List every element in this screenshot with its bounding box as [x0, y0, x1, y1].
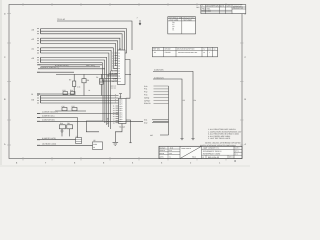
resistor R8	[82, 74, 89, 95]
svg-text:NOTES: UNLESS OTHERWISE SPECIF: NOTES: UNLESS OTHERWISE SPECIFIED	[205, 142, 241, 145]
reference designator table	[168, 16, 196, 34]
wire data line D0	[37, 95, 118, 97]
svg-text:PH2: PH2	[144, 91, 147, 94]
wire SELECT net	[153, 76, 185, 140]
wire Q1 base	[32, 93, 75, 96]
wire +5V rail	[56, 73, 131, 75]
svg-text:3 (WRITE SEL): 3 (WRITE SEL)	[42, 115, 55, 118]
wire MOTOR ON	[37, 119, 169, 122]
connector bracket data group	[32, 96, 41, 104]
svg-text:10 (HEAD LOAD): 10 (HEAD LOAD)	[42, 143, 56, 146]
svg-text:WRT REQ: WRT REQ	[86, 64, 95, 67]
wire address bus line 6	[41, 43, 118, 65]
resistor network K1	[59, 122, 72, 136]
wire WRITE PROTECT net	[38, 66, 105, 69]
svg-text:R11: R11	[67, 122, 70, 125]
op-amp U1 ROM	[111, 47, 126, 89]
device power table	[152, 47, 217, 56]
svg-text:PROD REL: PROD REL	[202, 8, 211, 11]
wire address bus line 8	[41, 50, 118, 70]
ground	[113, 142, 119, 145]
svg-text:Y1: Y1	[76, 135, 78, 138]
capacitor C4	[96, 74, 104, 95]
svg-text:APPROVED: APPROVED	[233, 5, 243, 8]
capacitor C2 value label	[77, 86, 90, 92]
svg-text:650-X104-00: 650-X104-00	[208, 156, 219, 159]
svg-text:9 (WRITE GATE): 9 (WRITE GATE)	[42, 137, 56, 140]
shift register U2	[107, 77, 127, 128]
svg-text:SCHEMATIC DISK II: SCHEMATIC DISK II	[203, 150, 222, 153]
crystal Y1	[76, 135, 82, 144]
wire DRIVE SELECT 1	[37, 111, 119, 114]
resistor R7	[69, 74, 76, 94]
wire return loop	[86, 121, 103, 132]
connector bracket group 2	[37, 38, 40, 43]
resistor R14	[70, 89, 75, 95]
capacitor C10	[62, 105, 68, 111]
wire bus drop 3	[106, 76, 108, 125]
relay G1	[93, 139, 103, 149]
svg-text:R10: R10	[60, 122, 63, 125]
wire address bus line 1	[32, 28, 127, 53]
svg-text:4 (MOTOR ON): 4 (MOTOR ON)	[42, 119, 55, 122]
wire MOTOR net	[153, 69, 196, 140]
revision table	[196, 5, 246, 14]
svg-text:U2: U2	[119, 96, 121, 99]
svg-text:A (WRITE PROTECT): A (WRITE PROTECT)	[40, 66, 59, 69]
svg-text:INTERFACE CARD: INTERFACE CARD	[203, 153, 221, 156]
svg-text:R8: R8	[87, 79, 89, 82]
svg-text:R13: R13	[63, 89, 66, 92]
svg-text:PH0: PH0	[144, 85, 147, 88]
svg-text:U1: U1	[119, 47, 121, 50]
wire address bus line 7	[32, 48, 118, 69]
title block	[159, 146, 242, 159]
connector bracket group 3	[37, 48, 40, 53]
wire address bus line 10	[32, 57, 118, 76]
wire U2 to ground	[115, 124, 122, 143]
svg-text:TO J1-10: TO J1-10	[57, 18, 65, 21]
wire bus drop 1	[102, 81, 104, 121]
svg-text:WREQ: WREQ	[144, 96, 150, 99]
svg-text:EN2: EN2	[144, 121, 147, 124]
wire ENABLE to U1 clock	[57, 18, 132, 50]
resistor R12	[55, 105, 86, 111]
wire READ DATA	[37, 64, 102, 66]
svg-text:apple computer inc.: apple computer inc.	[203, 147, 220, 150]
svg-text:RDDATA: RDDATA	[144, 102, 152, 105]
svg-text:EN1: EN1	[144, 119, 147, 122]
svg-text:R7: R7	[69, 78, 71, 81]
svg-text:Q2: Q2	[93, 139, 95, 142]
wire DRIVE SELECT 2	[37, 115, 78, 118]
svg-text:DESCRIPTION: DESCRIPTION	[206, 5, 219, 8]
wire write gate	[37, 118, 78, 140]
wire data line D2	[37, 100, 118, 102]
wire WRITE REQUEST net	[37, 71, 74, 73]
svg-text:R12: R12	[72, 105, 75, 108]
svg-text:PH1: PH1	[144, 88, 147, 91]
connector bracket group 1	[37, 29, 40, 34]
wire data line D3	[37, 102, 118, 104]
wire head load	[37, 143, 93, 146]
wire U2 output down	[126, 120, 132, 143]
wire address bus line 2	[41, 31, 125, 55]
connector J1 ladder	[144, 85, 169, 137]
resistor R13	[63, 89, 68, 95]
wire bus drop 5	[110, 71, 112, 129]
svg-text:C4: C4	[96, 76, 98, 79]
wire bus drop 4	[108, 73, 110, 127]
svg-text:PH3: PH3	[144, 94, 147, 97]
svg-text:WPROT: WPROT	[144, 99, 150, 102]
wire U1 output to U2	[125, 60, 130, 99]
wire WRITE PROTECT	[41, 64, 101, 67]
off-page arrow node 7	[137, 17, 142, 26]
svg-text:5. LAST REF DESIG USED: 5. LAST REF DESIG USED	[208, 137, 231, 140]
svg-text:C10: C10	[62, 105, 65, 108]
wire address bus line 4	[32, 38, 120, 61]
notes list	[205, 128, 242, 145]
wire address bus line 11	[41, 60, 118, 79]
svg-text:R14: R14	[70, 89, 73, 92]
tolerance note	[200, 144, 236, 147]
connector bracket group 4	[37, 57, 40, 62]
wire address bus line 5	[41, 41, 118, 63]
wire address bus line 9	[41, 53, 118, 73]
wire bus drop 2	[104, 78, 106, 123]
wire address bus line 3	[41, 34, 123, 58]
wire data line D1	[37, 97, 118, 99]
wire address bus line 12	[41, 63, 118, 81]
